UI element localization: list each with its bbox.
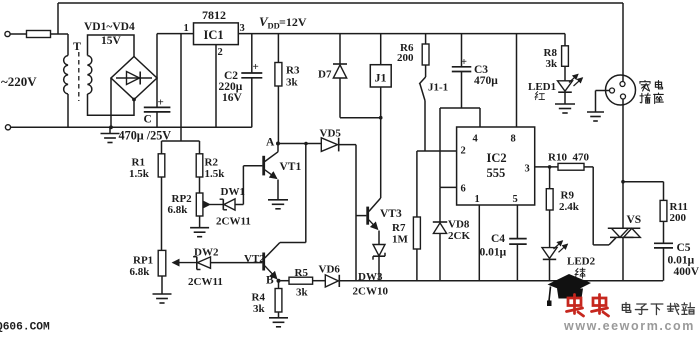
zener DW1 2CW11 — [216, 186, 251, 228]
svg-text:3k: 3k — [296, 287, 309, 299]
svg-text:+: + — [253, 61, 259, 73]
svg-text:=12V: =12V — [279, 15, 307, 29]
node VT2 collector junction — [304, 142, 308, 146]
pin 1 label IC1 — [184, 23, 189, 34]
regulator IC1 7812 — [194, 8, 239, 45]
svg-text:2: 2 — [461, 146, 466, 157]
wire socket bottom to triac — [622, 99, 624, 228]
svg-text:15V: 15V — [101, 35, 122, 47]
wire pin2 line — [417, 150, 457, 152]
LED2 green — [542, 241, 596, 281]
svg-text:0.01μ: 0.01μ — [668, 255, 695, 267]
svg-text:6: 6 — [461, 184, 466, 195]
label 470u/25V — [119, 129, 172, 143]
svg-text:DW3: DW3 — [358, 271, 383, 283]
capacitor C2 220u 16V — [219, 34, 263, 128]
svg-text:IC2: IC2 — [487, 151, 507, 165]
wire terminal to fuse — [10, 33, 26, 35]
wire secondary bottom to bridge — [88, 94, 135, 115]
svg-text:+: + — [158, 97, 164, 109]
svg-text:J1-1: J1-1 — [428, 82, 448, 94]
svg-text:VT2: VT2 — [244, 253, 265, 265]
wire socket left pin to ground — [587, 91, 610, 122]
wire VT2 collector to A line — [280, 144, 306, 243]
svg-text:VD5: VD5 — [320, 128, 342, 140]
pin 3 label IC2 — [525, 164, 530, 175]
resistor R4 3k — [252, 281, 289, 327]
svg-text:8: 8 — [511, 134, 516, 145]
svg-text:1.5k: 1.5k — [205, 168, 226, 180]
wire VT1 emitter to ground — [268, 180, 288, 209]
resistor R3 3k — [275, 34, 300, 144]
svg-text:3k: 3k — [546, 58, 559, 70]
resistor R2 1.5k — [196, 154, 225, 180]
svg-text:VT3: VT3 — [380, 208, 402, 220]
svg-text:B: B — [266, 275, 274, 287]
capacitor C4 0.01u — [480, 205, 527, 281]
wire pin8 riser — [516, 34, 518, 127]
timer IC2 555 — [457, 127, 535, 205]
svg-text:R2: R2 — [205, 157, 219, 169]
svg-text:555: 555 — [487, 166, 506, 180]
svg-text:2CW10: 2CW10 — [353, 286, 389, 298]
socket home appliance — [606, 75, 636, 105]
svg-text:C4: C4 — [491, 233, 505, 245]
svg-text:C: C — [144, 114, 152, 126]
svg-text:470μ: 470μ — [474, 75, 498, 87]
svg-text:VD8: VD8 — [448, 219, 470, 231]
watermark logo cap — [547, 274, 591, 306]
svg-text:RP1: RP1 — [133, 255, 153, 267]
diode VD8 2CK — [433, 187, 471, 280]
pin 2 label IC1 — [218, 47, 223, 58]
svg-text:A: A — [266, 137, 275, 149]
wire pin4 riser — [479, 108, 481, 127]
resistor R7 1M — [392, 151, 420, 281]
terminal input bottom — [5, 125, 10, 130]
resistor R5 3k — [281, 267, 326, 299]
pin 6 label IC2 — [461, 184, 466, 195]
switch J1-1 — [419, 65, 448, 151]
resistor R10 470 — [548, 152, 590, 171]
zener DW3 2CW10 — [353, 231, 389, 298]
wire IC1 pin2 to ground rail — [215, 45, 217, 128]
wire mains rail to socket — [622, 3, 624, 82]
svg-text:6.8k: 6.8k — [130, 266, 151, 278]
svg-text:470: 470 — [573, 152, 590, 164]
node bridge negative to ground rail — [109, 78, 113, 129]
node bridge AC bottom junction — [132, 98, 136, 102]
svg-text:R3: R3 — [286, 65, 300, 77]
wire snubber tap — [621, 180, 663, 184]
transistor VT1 — [264, 144, 302, 179]
svg-text:R9: R9 — [561, 190, 575, 202]
capacitor C 470u/25V — [144, 78, 171, 127]
svg-text:4: 4 — [473, 134, 479, 145]
bridge rectifier VD1~VD4 — [84, 21, 157, 100]
svg-text:R5: R5 — [295, 267, 309, 279]
label socket — [640, 80, 663, 103]
pin 2 label IC2 — [461, 146, 466, 157]
svg-text:1: 1 — [475, 194, 480, 205]
node A — [266, 137, 280, 149]
label green char — [575, 268, 585, 278]
ground symbol main — [101, 127, 120, 142]
svg-text:3k: 3k — [286, 77, 299, 89]
svg-text:R7: R7 — [392, 222, 406, 234]
svg-text:2.4k: 2.4k — [559, 201, 580, 213]
svg-text:DW2: DW2 — [194, 247, 219, 259]
wire top mains rail — [58, 2, 623, 4]
wire VDD 12V rail — [238, 33, 565, 35]
wire RP1 to ground — [153, 276, 172, 303]
svg-text:3k: 3k — [253, 303, 266, 315]
svg-text:VT1: VT1 — [280, 161, 302, 173]
diode D7 — [318, 34, 347, 118]
watermark url — [563, 319, 695, 333]
svg-text:2CW11: 2CW11 — [216, 216, 251, 228]
wire C3 to pin6/VD8 — [440, 108, 457, 187]
svg-text:LED2: LED2 — [567, 256, 596, 268]
svg-text:1M: 1M — [392, 234, 409, 246]
svg-text:R10: R10 — [548, 152, 567, 164]
svg-text:VS: VS — [627, 214, 642, 226]
svg-text:VD6: VD6 — [319, 264, 341, 276]
label ~220V — [1, 74, 37, 89]
svg-text:1.5k: 1.5k — [129, 168, 150, 180]
capacitor C3 470u — [452, 34, 498, 108]
watermark chongchong red — [567, 295, 609, 317]
svg-text:+: + — [461, 57, 467, 68]
terminal input top — [5, 31, 10, 36]
svg-text:200: 200 — [670, 212, 687, 224]
pin 5 label IC2 — [513, 194, 518, 205]
wire riser to top mains rail — [57, 3, 59, 34]
wire bottom common line — [356, 280, 663, 282]
diode VD5 — [320, 128, 357, 152]
svg-text:T: T — [73, 39, 81, 53]
wire RP2 to ground — [190, 216, 209, 237]
pin 1 label IC2 — [475, 194, 480, 205]
resistor R9 2.4k — [546, 167, 579, 248]
wire pin3 out — [535, 165, 558, 169]
wire fuse to transformer — [51, 33, 69, 35]
svg-text:R1: R1 — [132, 157, 145, 169]
wire VD5 to VT3 base riser — [355, 145, 357, 281]
wire R1 to RP1 — [161, 177, 163, 250]
svg-text:~220V: ~220V — [1, 74, 37, 89]
wire C3 bottom jog — [440, 107, 480, 109]
wire R2 to RP2 — [199, 177, 201, 193]
svg-text:Q606.COM: Q606.COM — [0, 322, 50, 333]
svg-text:RP2: RP2 — [172, 193, 193, 205]
potentiometer RP2 6.8k — [168, 193, 224, 216]
svg-text:VD1~VD4: VD1~VD4 — [84, 21, 135, 33]
resistor R6 200 — [397, 34, 429, 65]
pin 4 label IC2 — [473, 134, 479, 145]
pin 8 label IC2 — [511, 134, 516, 145]
LED1 red — [528, 74, 583, 113]
wire triac to bottom line — [622, 237, 624, 280]
wire node A to VD5 — [278, 143, 321, 145]
svg-text:1: 1 — [184, 23, 189, 34]
label red char — [535, 92, 544, 100]
svg-text:5: 5 — [513, 194, 518, 205]
resistor R11 200 — [660, 182, 688, 224]
watermark Q606.COM — [0, 322, 50, 334]
zener DW2 2CW11 — [188, 247, 262, 289]
triac VS — [608, 214, 641, 237]
relay coil J1 — [370, 34, 391, 118]
svg-text:7812: 7812 — [202, 8, 226, 22]
svg-text:3: 3 — [240, 23, 245, 34]
svg-text:R4: R4 — [252, 292, 266, 304]
svg-text:D7: D7 — [318, 69, 332, 81]
fuse FU — [27, 31, 51, 38]
wire secondary top to bridge — [88, 35, 135, 57]
svg-text:400V: 400V — [674, 266, 700, 278]
svg-text:0.01μ: 0.01μ — [480, 247, 507, 259]
pin 3 label IC1 — [240, 23, 245, 34]
potentiometer RP1 6.8k — [130, 250, 197, 278]
node B — [266, 275, 281, 287]
svg-text:LED1: LED1 — [528, 81, 556, 93]
wire DW1 to VT1 base — [243, 166, 262, 205]
svg-text:www.eeworm.com: www.eeworm.com — [563, 319, 695, 332]
watermark site name — [622, 303, 694, 315]
svg-text:200: 200 — [397, 52, 414, 64]
transistor VT2 — [244, 243, 280, 279]
wire bridge positive riser to IC1 pin1 — [157, 34, 194, 78]
svg-text:2CW11: 2CW11 — [188, 276, 223, 288]
wire D7/J1 junction to VT3 collector — [340, 116, 383, 198]
svg-text:J1: J1 — [375, 71, 387, 85]
svg-text:6.8k: 6.8k — [168, 204, 189, 216]
svg-text:C5: C5 — [677, 242, 691, 254]
svg-text:IC1: IC1 — [204, 28, 224, 42]
resistor R8 3k — [544, 34, 569, 81]
capacitor C5 0.01u 400V — [654, 221, 700, 280]
svg-text:DD: DD — [268, 21, 280, 31]
transistor VT3 — [356, 198, 402, 229]
transformer T — [64, 34, 92, 127]
wire pin1 to bottom line — [478, 205, 480, 281]
diode VD6 — [319, 264, 357, 288]
label VDD=12V — [259, 14, 307, 31]
resistor R1 1.5k — [129, 154, 165, 180]
wire divider feed riser — [162, 34, 200, 154]
svg-text:DW1: DW1 — [221, 186, 245, 198]
wire R10 to triac gate — [584, 167, 616, 245]
svg-text:2: 2 — [218, 47, 223, 58]
svg-text:3: 3 — [525, 164, 530, 175]
svg-text:2CK: 2CK — [448, 230, 470, 242]
svg-text:16V: 16V — [222, 92, 243, 104]
wire ground rail — [11, 126, 252, 128]
